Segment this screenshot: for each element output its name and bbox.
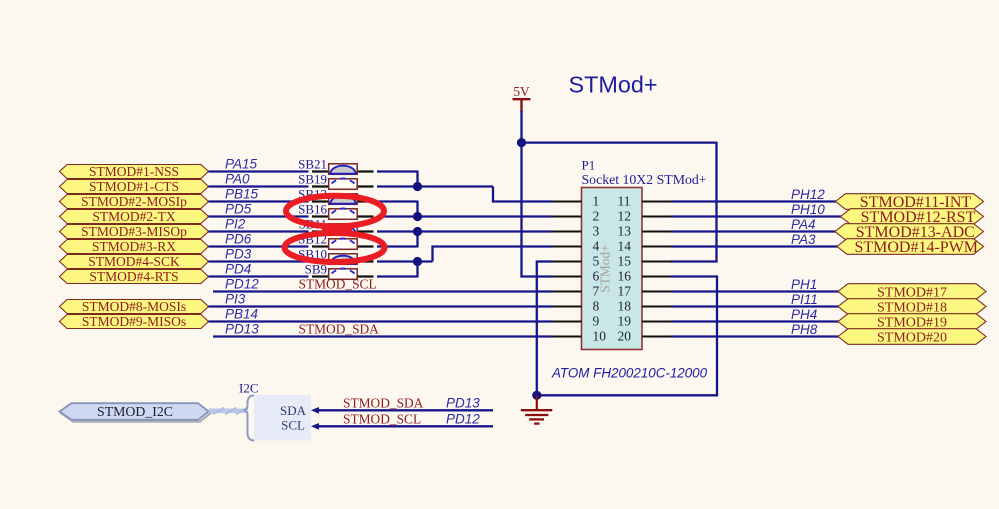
wire PD12 to P1 (213, 290, 553, 292)
svg-text:PD12: PD12 (225, 277, 259, 292)
port STMOD#3-MISOp (60, 224, 209, 239)
svg-text:PD13: PD13 (446, 395, 480, 410)
port STMOD#1-CTS (60, 179, 209, 194)
wire PD13 to P1 (213, 335, 553, 337)
port STMOD#3-RX (60, 239, 209, 254)
port STMOD#9-MISOs (60, 314, 209, 329)
port STMOD#19 (838, 314, 986, 331)
solder bridge SB12 (312, 239, 374, 250)
svg-text:SB19: SB19 (298, 172, 327, 187)
wire PA15 after SB21 (377, 170, 419, 172)
svg-text:STMod+: STMod+ (569, 72, 658, 98)
solder bridge SB16 (312, 209, 374, 220)
solder bridge SB13 (312, 194, 374, 205)
port STMOD#2-TX (60, 209, 209, 224)
pin 13 (618, 224, 673, 239)
wire PA3 (672, 245, 840, 247)
svg-text:STMOD#1-NSS: STMOD#1-NSS (89, 164, 179, 179)
pin 9 (552, 314, 600, 329)
junction 5V node (517, 138, 526, 147)
svg-text:4: 4 (593, 239, 600, 254)
wire PD6 rise to PI2 node (416, 232, 418, 247)
junction node pin2 net (413, 212, 422, 221)
svg-text:PH8: PH8 (791, 322, 818, 337)
svg-text:20: 20 (618, 329, 632, 344)
wire STMOD_SCL (I2C) (319, 425, 494, 427)
wire PA4 (672, 230, 838, 232)
power 5V (513, 84, 531, 112)
svg-text:16: 16 (618, 269, 632, 284)
pin 12 (618, 209, 673, 224)
svg-text:PD3: PD3 (225, 247, 252, 262)
wire GND pin 5 (537, 260, 553, 262)
svg-text:9: 9 (593, 314, 600, 329)
annotation ellipse around SB16 (286, 196, 384, 227)
harness entry arrow SCL (311, 423, 319, 430)
svg-text:5V: 5V (513, 84, 530, 99)
junction node pin1 net (413, 182, 422, 191)
wire PI11 (672, 305, 841, 307)
pin 14 (618, 239, 673, 254)
svg-text:PA15: PA15 (225, 157, 258, 172)
solder bridge SB21 (312, 164, 374, 175)
svg-text:PD5: PD5 (225, 202, 252, 217)
svg-text:PD4: PD4 (225, 262, 251, 277)
svg-text:STMOD#2-MOSIp: STMOD#2-MOSIp (81, 194, 187, 209)
wire 5V to pin 15 (671, 142, 717, 262)
svg-text:17: 17 (618, 284, 632, 299)
pin 4 (552, 239, 600, 254)
wire PB15 after SB13 (377, 200, 419, 202)
wire PD6 after SB12 (377, 245, 419, 247)
pin 11 (618, 194, 673, 209)
svg-text:STMOD#2-TX: STMOD#2-TX (92, 209, 175, 224)
svg-text:STMOD#3-RX: STMOD#3-RX (92, 239, 176, 254)
harness cable (209, 408, 247, 415)
port STMOD#20 (838, 329, 986, 346)
svg-text:STMOD_I2C: STMOD_I2C (97, 404, 173, 419)
solder bridge SB9 (312, 269, 374, 280)
wire PI2 from port (209, 230, 309, 232)
svg-text:19: 19 (618, 314, 632, 329)
wire PA0 from port (209, 185, 309, 187)
svg-text:STMOD#8-MOSIs: STMOD#8-MOSIs (82, 299, 186, 314)
port STMOD#11-INT (836, 194, 984, 211)
pin 20 (618, 329, 673, 344)
svg-text:6: 6 (593, 269, 600, 284)
svg-text:PH1: PH1 (791, 277, 817, 292)
wire PI2 to pin 3 (377, 230, 553, 232)
svg-text:8: 8 (593, 299, 600, 314)
pin 17 (618, 284, 673, 299)
solder bridge SB10 (312, 254, 374, 264)
svg-text:P1: P1 (582, 158, 596, 173)
wire STMOD_SDA (I2C) (319, 409, 494, 411)
junction node pin3 net (413, 227, 422, 236)
svg-text:7: 7 (593, 284, 600, 299)
port STMOD#2-MOSIp (60, 194, 209, 209)
svg-text:PB14: PB14 (225, 307, 258, 322)
svg-text:SB21: SB21 (298, 157, 327, 172)
wire jog up to pin 4 (433, 247, 553, 262)
svg-text:1: 1 (593, 194, 600, 209)
svg-text:STMOD#20: STMOD#20 (877, 331, 947, 346)
svg-text:PD12: PD12 (446, 411, 480, 426)
svg-text:PD13: PD13 (225, 322, 259, 337)
port STMOD#17 (838, 284, 986, 301)
port STMOD#8-MOSIs (60, 299, 209, 314)
wire PD4 after SB9 (377, 275, 419, 277)
wire PA15 from port (209, 170, 309, 172)
svg-text:PH4: PH4 (791, 307, 817, 322)
solder bridge SB11 (312, 224, 374, 235)
svg-text:PD6: PD6 (225, 232, 252, 247)
port STMOD#14-PWM (837, 239, 984, 256)
solder bridge SB19 (312, 179, 374, 190)
svg-text:SCL: SCL (281, 417, 305, 432)
svg-text:14: 14 (618, 239, 632, 254)
svg-text:13: 13 (618, 224, 632, 239)
svg-text:I2C: I2C (239, 381, 259, 396)
pin 5 (552, 254, 600, 269)
svg-text:10: 10 (593, 329, 607, 344)
pin 10 (552, 329, 607, 344)
wire PI3 to P1 (209, 305, 553, 307)
wire PA0 to jog (377, 185, 493, 187)
svg-text:PA3: PA3 (791, 232, 816, 247)
junction GND node (532, 391, 541, 400)
wire GND vertical (536, 261, 538, 396)
svg-text:STMOD#1-CTS: STMOD#1-CTS (89, 179, 179, 194)
svg-text:STMOD_SDA: STMOD_SDA (299, 322, 380, 337)
svg-text:STMod+: STMod+ (598, 244, 613, 292)
wire PD4 rise to PD3 node (416, 262, 418, 277)
wire 5V top horizontal (522, 141, 717, 143)
svg-text:PH10: PH10 (791, 202, 825, 217)
wire PA15 drop to PA0 node (416, 172, 418, 187)
svg-text:PA0: PA0 (225, 172, 250, 187)
pin 19 (618, 314, 673, 329)
port STMOD#1-NSS (60, 164, 209, 179)
harness box (254, 395, 311, 441)
svg-text:18: 18 (618, 299, 632, 314)
svg-text:SDA: SDA (280, 403, 307, 418)
svg-text:STMOD#4-SCK: STMOD#4-SCK (88, 254, 180, 269)
wire 5V vertical from symbol (520, 111, 522, 144)
svg-text:STMOD_SDA: STMOD_SDA (343, 395, 424, 410)
svg-text:11: 11 (618, 194, 631, 209)
wire GND from pin 16 (536, 277, 717, 396)
pin 16 (618, 269, 673, 284)
wire PD4 from port (209, 275, 309, 277)
wire jog down to pin 1 (493, 187, 553, 202)
svg-text:Socket 10X2 STMod+: Socket 10X2 STMod+ (582, 172, 707, 187)
wire PH4 (672, 320, 841, 322)
svg-text:PI11: PI11 (791, 292, 818, 307)
svg-text:3: 3 (593, 224, 600, 239)
pin 8 (552, 299, 600, 314)
pin 18 (618, 299, 673, 314)
wire PH1 (672, 290, 841, 292)
svg-text:2: 2 (593, 209, 600, 224)
wire PH10 (672, 215, 843, 217)
ground symbol (521, 395, 553, 423)
pin 7 (552, 284, 600, 299)
wire PD5 from port (209, 215, 309, 217)
wire PB15 drop to PD5 node (416, 202, 418, 217)
svg-text:STMOD#14-PWM: STMOD#14-PWM (854, 239, 978, 256)
svg-text:PA4: PA4 (791, 217, 816, 232)
svg-text:5: 5 (593, 254, 600, 269)
port STMOD#4-RTS (60, 269, 209, 284)
wire 5V to pin 6 (522, 143, 553, 277)
harness entry arrow SDA (311, 407, 319, 414)
svg-text:15: 15 (618, 254, 632, 269)
pin 6 (552, 269, 600, 284)
wire PD3 from port (209, 260, 309, 262)
svg-text:ATOM FH200210C-12000: ATOM FH200210C-12000 (551, 366, 708, 381)
pin 15 (618, 254, 673, 269)
wire PB15 from port (209, 200, 309, 202)
harness brace (244, 395, 255, 440)
annotation overlap blob (322, 227, 352, 234)
port STMOD#13-ADC (835, 224, 984, 241)
pin 3 (552, 224, 600, 239)
svg-text:STMOD#3-MISOp: STMOD#3-MISOp (81, 224, 187, 239)
svg-text:STMOD#4-RTS: STMOD#4-RTS (89, 269, 178, 284)
port STMOD#4-SCK (60, 254, 209, 269)
svg-text:STMOD_SCL: STMOD_SCL (343, 411, 421, 426)
svg-text:PI3: PI3 (225, 292, 246, 307)
svg-text:PI2: PI2 (225, 217, 246, 232)
wire PD5 to pin 2 (377, 215, 553, 217)
pin 1 (552, 194, 600, 209)
pin 2 (552, 209, 600, 224)
svg-text:STMOD#9-MISOs: STMOD#9-MISOs (82, 314, 186, 329)
wire PH12 (672, 200, 838, 202)
junction node pin4 net (413, 257, 422, 266)
connector P1 body (582, 188, 643, 350)
port STMOD#18 (838, 299, 986, 316)
wire PD3 after SB10 (377, 260, 433, 262)
svg-text:PH12: PH12 (791, 187, 825, 202)
annotation ellipse around SB12 (285, 233, 385, 262)
wire PB14 to P1 (209, 320, 553, 322)
wire PH8 (672, 335, 841, 337)
svg-text:12: 12 (618, 209, 632, 224)
wire PD6 from port (209, 245, 309, 247)
svg-text:SB16: SB16 (298, 202, 327, 217)
harness connector STMOD_I2C (60, 403, 211, 421)
port STMOD#12-RST (841, 209, 984, 226)
svg-text:PB15: PB15 (225, 187, 259, 202)
